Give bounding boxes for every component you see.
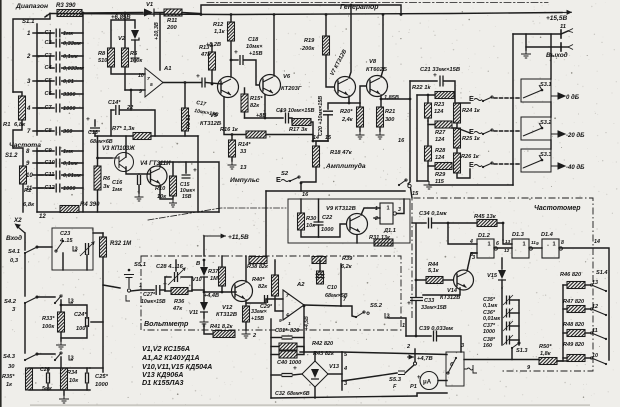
capacitor С6 [56, 90, 60, 99]
wire V2 drop [125, 20, 135, 28]
wire jog С2 [50, 33, 54, 43]
resistor R8 [108, 48, 115, 67]
svg-text:14: 14 [594, 239, 600, 245]
resistor R19 [323, 36, 330, 55]
svg-text:9: 9 [279, 318, 282, 324]
wire meter right [438, 380, 447, 382]
wire S4.3 row [37, 353, 55, 355]
svg-text:2: 2 [374, 216, 378, 222]
wire C34 left [412, 222, 426, 224]
wire dashed to S3.3 [494, 163, 521, 165]
svg-text:9: 9 [536, 241, 539, 246]
wire feedback node [111, 109, 114, 111]
svg-text:С22: С22 [322, 215, 333, 221]
switch blade 12 [605, 314, 607, 316]
wire V4 emitter down [160, 185, 173, 199]
resistor R36 [171, 288, 188, 295]
wire C19 to R17 [289, 118, 292, 122]
resistor R3 [57, 10, 82, 17]
transistor V3 [115, 153, 134, 172]
wire net16 into freq box [411, 188, 413, 198]
switch blade S3.3 [523, 155, 542, 168]
svg-text:5мк: 5мк [42, 386, 52, 392]
wire С5 to right bus [62, 80, 83, 82]
wire V14 emitter [423, 288, 460, 295]
node 15 circle [408, 184, 411, 187]
svg-text:115: 115 [435, 179, 445, 185]
resistor R9 [182, 108, 189, 131]
svg-text:С20 +10мк×15В: С20 +10мк×15В [318, 96, 324, 136]
capacitor C39 [434, 331, 437, 342]
logic gate D1.3 [512, 239, 529, 258]
wire divider rail 2 [24, 303, 26, 353]
wire R47 left stub [563, 308, 567, 310]
svg-text:В: В [196, 261, 200, 267]
svg-text:С12: С12 [45, 185, 56, 191]
wire C22 top [318, 199, 320, 222]
diode V11 [200, 302, 208, 311]
svg-text:R36: R36 [174, 299, 185, 305]
svg-text:D1.2: D1.2 [478, 233, 491, 239]
svg-text:Д1.1: Д1.1 [383, 228, 396, 234]
capacitor С12 [56, 184, 60, 193]
wire net16 vertical [300, 183, 302, 191]
wire contact 7 tick [33, 130, 43, 132]
wire R25 link [456, 148, 458, 153]
resistor R34 [61, 368, 68, 390]
wire C19 node [245, 117, 284, 119]
svg-text:12: 12 [504, 248, 510, 253]
wire D1.3 to D1.4 [529, 247, 542, 249]
wire C13 bottom [94, 132, 96, 136]
wire C26 stubs [47, 368, 49, 373]
resistor R18 [313, 146, 320, 167]
resistor R21 [377, 107, 384, 127]
wire R49 left stub [563, 357, 567, 359]
wire R24 tap [457, 102, 470, 104]
wire R22 rail down [416, 95, 418, 181]
capacitor С1 [56, 29, 60, 38]
svg-text:R34: R34 [67, 370, 78, 376]
wire R45 to D1.3 [503, 240, 512, 244]
resistor R1 [19, 96, 26, 120]
wire C15 right out [186, 162, 219, 212]
switch box S3.3 [521, 149, 551, 172]
wire R44 to V14 [443, 279, 453, 281]
wire contact 9 tick [33, 162, 43, 164]
diode V1 [144, 9, 153, 17]
wire V6 emitter down [264, 95, 266, 118]
svg-text:С6: С6 [45, 91, 53, 97]
svg-text:1000: 1000 [483, 329, 495, 335]
wire С35* right [510, 299, 519, 301]
resistor R10 [170, 176, 177, 196]
capacitor C15 [182, 175, 191, 178]
wire V2 to ground [134, 40, 136, 54]
svg-text:S1.4: S1.4 [596, 270, 608, 276]
wire С9 to right bus [62, 150, 83, 152]
svg-text:D1 К155ЛА3: D1 К155ЛА3 [142, 379, 184, 387]
capacitor C34 [429, 218, 432, 229]
wire V10 V11 column [203, 260, 205, 266]
wire A2 out down [303, 305, 305, 352]
resistor R2 [20, 166, 27, 184]
svg-text:V10: V10 [192, 277, 202, 283]
wire bottom rail to R4 [37, 211, 60, 213]
wire C39 right [437, 336, 461, 352]
wire C25 right [90, 377, 92, 379]
resistor R33 [58, 312, 65, 332]
meter P1 microampermeter [420, 372, 438, 390]
capacitor C24 [86, 317, 89, 327]
svg-text:16: 16 [398, 138, 405, 144]
svg-text:R22 1к: R22 1к [412, 85, 432, 91]
wire contact 10 tick [33, 174, 43, 176]
svg-text:Е: Е [469, 127, 474, 136]
wire chain to S1.3 [518, 340, 520, 345]
capacitor C19 [286, 113, 289, 124]
capacitor C21 [440, 76, 443, 87]
svg-text:Вольтметр: Вольтметр [144, 320, 189, 328]
page scan border left [0, 0, 2, 407]
svg-text:1000: 1000 [63, 186, 76, 192]
svg-text:13: 13 [240, 165, 247, 171]
wire R18 bottom to S2 [301, 167, 316, 182]
wire R13 bottom to base [211, 70, 213, 84]
wire S3 right rail to output [550, 34, 552, 79]
wire V3 gate to R6 [98, 157, 113, 159]
capacitor C29 [265, 295, 268, 303]
svg-text:Амплитуда: Амплитуда [325, 162, 366, 170]
capacitor C27 [156, 285, 160, 295]
wire A2 out [304, 305, 341, 306]
svg-text:КТ312В: КТ312В [216, 312, 237, 318]
svg-text:R38 82к: R38 82к [247, 264, 269, 270]
wire V5 collector node to C18 [231, 59, 238, 61]
svg-text:А1: А1 [163, 66, 171, 72]
svg-text:0,01мк: 0,01мк [483, 316, 500, 322]
wire box bottom link [417, 393, 447, 396]
svg-text:С4: С4 [45, 65, 53, 71]
switch inside C23 box [62, 240, 64, 242]
box voltmeter dash-dot [141, 256, 401, 330]
wire С37* right [510, 325, 519, 327]
svg-text:1: 1 [523, 242, 526, 248]
wire contact 8 tick [33, 150, 43, 152]
resistor R45 [477, 220, 497, 227]
wire R43 left [271, 354, 279, 356]
wire D1.1 input2 [374, 217, 380, 219]
wire R9 top to A1 out [184, 83, 186, 109]
wire V11 to ground [203, 312, 205, 318]
wire net16 down to voltmeter [265, 191, 267, 256]
wire С38* right [510, 339, 519, 341]
wire R50 to ladder rail [557, 360, 563, 362]
svg-text:С23: С23 [60, 231, 71, 237]
wire output to C21 [410, 80, 437, 82]
svg-text:X2: X2 [13, 217, 22, 224]
switch blade in box [455, 357, 457, 359]
wire V6 collector up [273, 15, 275, 77]
wire V1 to R11 [154, 12, 164, 14]
svg-text:R18 47к: R18 47к [330, 150, 353, 156]
svg-text:С9: С9 [45, 148, 53, 154]
wire С3 to right bus [62, 55, 83, 57]
resistor R42 [279, 343, 297, 350]
svg-text:1,1к: 1,1к [214, 29, 226, 35]
wire node 14 to R18 [316, 141, 328, 146]
svg-text:S3.2: S3.2 [540, 120, 552, 126]
wire R33 ground [60, 332, 62, 341]
svg-text:200: 200 [166, 25, 177, 31]
wire S4.2 row [37, 296, 55, 298]
svg-text:S4.1: S4.1 [8, 249, 20, 255]
svg-text:R35*: R35* [2, 374, 15, 380]
svg-text:10: 10 [138, 73, 144, 79]
wire C24 right [86, 321, 88, 323]
resistor R35 [26, 368, 33, 390]
svg-text:R16 1к: R16 1к [220, 127, 239, 133]
wire С7 to right bus [62, 107, 83, 109]
switch S4.2 [24, 302, 26, 304]
resistor R32 [100, 237, 107, 257]
transistor V7 [335, 77, 356, 98]
wire R4 right to pulse block [79, 211, 219, 213]
svg-text:11: 11 [592, 328, 598, 334]
svg-text:15В: 15В [182, 194, 192, 200]
resistor R15 [241, 94, 248, 112]
wire S1.3 down [511, 348, 513, 360]
capacitor С10 [56, 159, 60, 168]
wire С4 to right bus [62, 67, 83, 69]
logic gate D1.2 [477, 239, 494, 258]
wire 33mk to ground [245, 322, 247, 330]
resistor R20 [357, 107, 364, 127]
wire generator branch bus [201, 5, 401, 15]
svg-text:R29: R29 [435, 172, 446, 178]
capacitor C22 [314, 222, 324, 225]
box C23 trimmer [52, 228, 93, 270]
ground under R20 [359, 127, 361, 131]
svg-text:+8,2В: +8,2В [206, 42, 221, 48]
wire R40 top [274, 260, 276, 275]
svg-text:А1,А2 К140УД1А: А1,А2 К140УД1А [141, 354, 200, 362]
svg-text:С26: С26 [40, 367, 51, 373]
wire S5.1 to C27 [131, 290, 154, 291]
op-amp A1 [145, 68, 163, 97]
switch S4.1 [24, 252, 26, 254]
svg-text:Е: Е [469, 160, 474, 169]
resistor R39 [312, 257, 326, 264]
svg-text:S4.2: S4.2 [4, 299, 17, 305]
arrow +11,5V [204, 235, 226, 237]
svg-text:Диапазон: Диапазон [15, 3, 48, 10]
wire contact 2 tick [33, 55, 43, 57]
capacitor С7 [56, 104, 60, 113]
op-amp A2 [283, 290, 304, 320]
svg-text:S5.2: S5.2 [370, 303, 383, 309]
svg-text:6,2к: 6,2к [341, 264, 353, 270]
capacitor C25 [86, 373, 89, 384]
wire meter rail [341, 352, 343, 390]
box frequency meter dash-dot [412, 198, 593, 371]
label C30 cap [316, 275, 325, 278]
svg-text:Вход: Вход [6, 234, 22, 242]
svg-text:1000: 1000 [321, 227, 334, 233]
svg-text:+15В: +15В [249, 51, 263, 57]
wire R15 bottom [244, 112, 246, 118]
wire contact 1 tick [33, 32, 43, 34]
wire A1 inv feedback [130, 90, 132, 110]
svg-text:0,1мк: 0,1мк [63, 54, 79, 60]
wire divider rail [24, 253, 26, 296]
svg-text:V1,V2 КС156А: V1,V2 КС156А [142, 345, 190, 353]
svg-text:R11: R11 [167, 18, 177, 24]
wire base line [204, 291, 236, 293]
svg-text:2,4к: 2,4к [341, 117, 354, 123]
svg-text:R23: R23 [434, 102, 445, 108]
svg-text:+: + [234, 49, 238, 56]
wire cap chain left rail [501, 288, 503, 345]
wire C22 bottom [318, 225, 320, 237]
ground ladder [424, 181, 435, 189]
svg-text:R40*: R40* [252, 277, 265, 283]
wire net16 horizontal [266, 190, 405, 192]
svg-text:+: + [293, 365, 297, 372]
resistor R44 [426, 277, 443, 284]
switch S1.3 [511, 347, 513, 349]
svg-text:820: 820 [290, 328, 300, 334]
wire R12 to V5 collector [230, 41, 232, 77]
ground under V2 [131, 54, 140, 62]
capacitor 33mk emitter [243, 306, 250, 322]
wire V9 collector [361, 208, 380, 215]
wire R44 left [416, 279, 426, 281]
svg-text:0,01мк: 0,01мк [63, 173, 82, 179]
svg-text:+: + [433, 72, 437, 79]
wire R42R43 right [297, 347, 304, 355]
wire C31 left [271, 337, 282, 339]
wire R25 tap [457, 128, 470, 133]
svg-text:R33*: R33* [42, 316, 55, 322]
wire V3 drain to V4 base [126, 167, 139, 174]
wire tap 10 [585, 357, 590, 359]
svg-text:+10,3В: +10,3В [154, 22, 160, 40]
wire V10 to V11 [203, 277, 205, 302]
resistor R4 [60, 206, 79, 213]
svg-text:R25 1к: R25 1к [462, 136, 481, 142]
svg-text:R37: R37 [208, 269, 219, 275]
svg-text:С29*: С29* [260, 304, 273, 310]
svg-text:2: 2 [26, 54, 31, 60]
wire jog С4 [50, 56, 54, 68]
wire R30 top [300, 199, 302, 213]
svg-text:82к: 82к [258, 284, 268, 290]
wire R33 top [60, 300, 62, 312]
svg-text:R12: R12 [213, 22, 224, 28]
svg-text:R2: R2 [24, 188, 32, 194]
wire C24 bottom [61, 326, 87, 338]
wire node 47V vertical [414, 349, 416, 362]
svg-text:С13: С13 [88, 130, 98, 136]
wire S1.1 common rail [36, 24, 38, 135]
junction dots top bus [200, 13, 203, 16]
wire rail bottom [417, 180, 428, 182]
wire C30 top [319, 260, 321, 272]
resistor R38 [249, 257, 267, 264]
wire C34 to R45 [432, 222, 477, 224]
wire right bus S1.1 [82, 13, 84, 212]
wire C18 to V6 base [244, 60, 259, 85]
wire C15 top [173, 162, 186, 173]
connector Diapazon arrow [45, 14, 50, 18]
svg-text:С11: С11 [45, 172, 55, 178]
wire С1 to right bus [62, 32, 83, 34]
svg-text:КТ312В: КТ312В [440, 295, 460, 301]
wire V12 emitter to A2 [246, 299, 283, 303]
wire V14 collector [467, 253, 477, 271]
svg-text:S1.2: S1.2 [5, 153, 18, 159]
svg-text:12: 12 [592, 304, 598, 310]
svg-text:300: 300 [385, 117, 395, 123]
wire R41 stub [204, 324, 213, 334]
wire R3 to V1 [82, 12, 143, 15]
svg-text:1мк: 1мк [63, 149, 74, 155]
svg-text:С5: С5 [45, 78, 53, 84]
wire R32 top [102, 233, 104, 237]
connector output pin1 [560, 30, 562, 38]
svg-text:0,33мк: 0,33мк [63, 41, 82, 47]
wire R40 bottom [275, 296, 283, 311]
wire row С9 [37, 150, 54, 152]
wire R14 to ground [231, 157, 233, 161]
svg-text:+: + [86, 116, 90, 123]
svg-text:10к: 10к [306, 223, 316, 229]
svg-text:R42 820: R42 820 [312, 341, 334, 347]
diode V15 symbol [498, 270, 506, 279]
resistor R13 [209, 52, 216, 70]
svg-text:С40 1000: С40 1000 [277, 360, 302, 366]
svg-text:47к: 47к [172, 306, 183, 312]
wire tap 11 [585, 332, 590, 334]
svg-text:-20 дБ: -20 дБ [566, 133, 585, 139]
capacitor C28 trimmer [175, 272, 178, 282]
wire V5 emitter [224, 97, 246, 135]
svg-text:С32: С32 [275, 391, 285, 397]
resistor R30 [298, 213, 305, 230]
wire bridge top [314, 352, 316, 361]
svg-text:+: + [407, 300, 411, 307]
svg-text:R15*: R15* [250, 96, 263, 102]
wire dashed to S3.2 [494, 130, 521, 132]
svg-text:μА: μА [423, 380, 432, 386]
resistor R39v [317, 271, 324, 284]
wire C14 to R9 [120, 110, 156, 136]
svg-text:1,8к: 1,8к [540, 351, 552, 357]
svg-text:68мк×6В: 68мк×6В [90, 139, 113, 145]
svg-text:Е: Е [276, 175, 281, 184]
ground V11 [200, 318, 209, 326]
zener V2 [131, 30, 139, 39]
capacitor С36* [507, 309, 510, 318]
wire S5.1 feed [103, 285, 120, 288]
svg-text:С10: С10 [327, 285, 337, 291]
svg-text:R32 1М: R32 1М [110, 241, 132, 247]
wire C20 bottom [327, 115, 329, 141]
svg-text:1мк: 1мк [112, 187, 123, 193]
wire S5.2 out [389, 318, 406, 336]
svg-text:С8: С8 [45, 128, 53, 134]
